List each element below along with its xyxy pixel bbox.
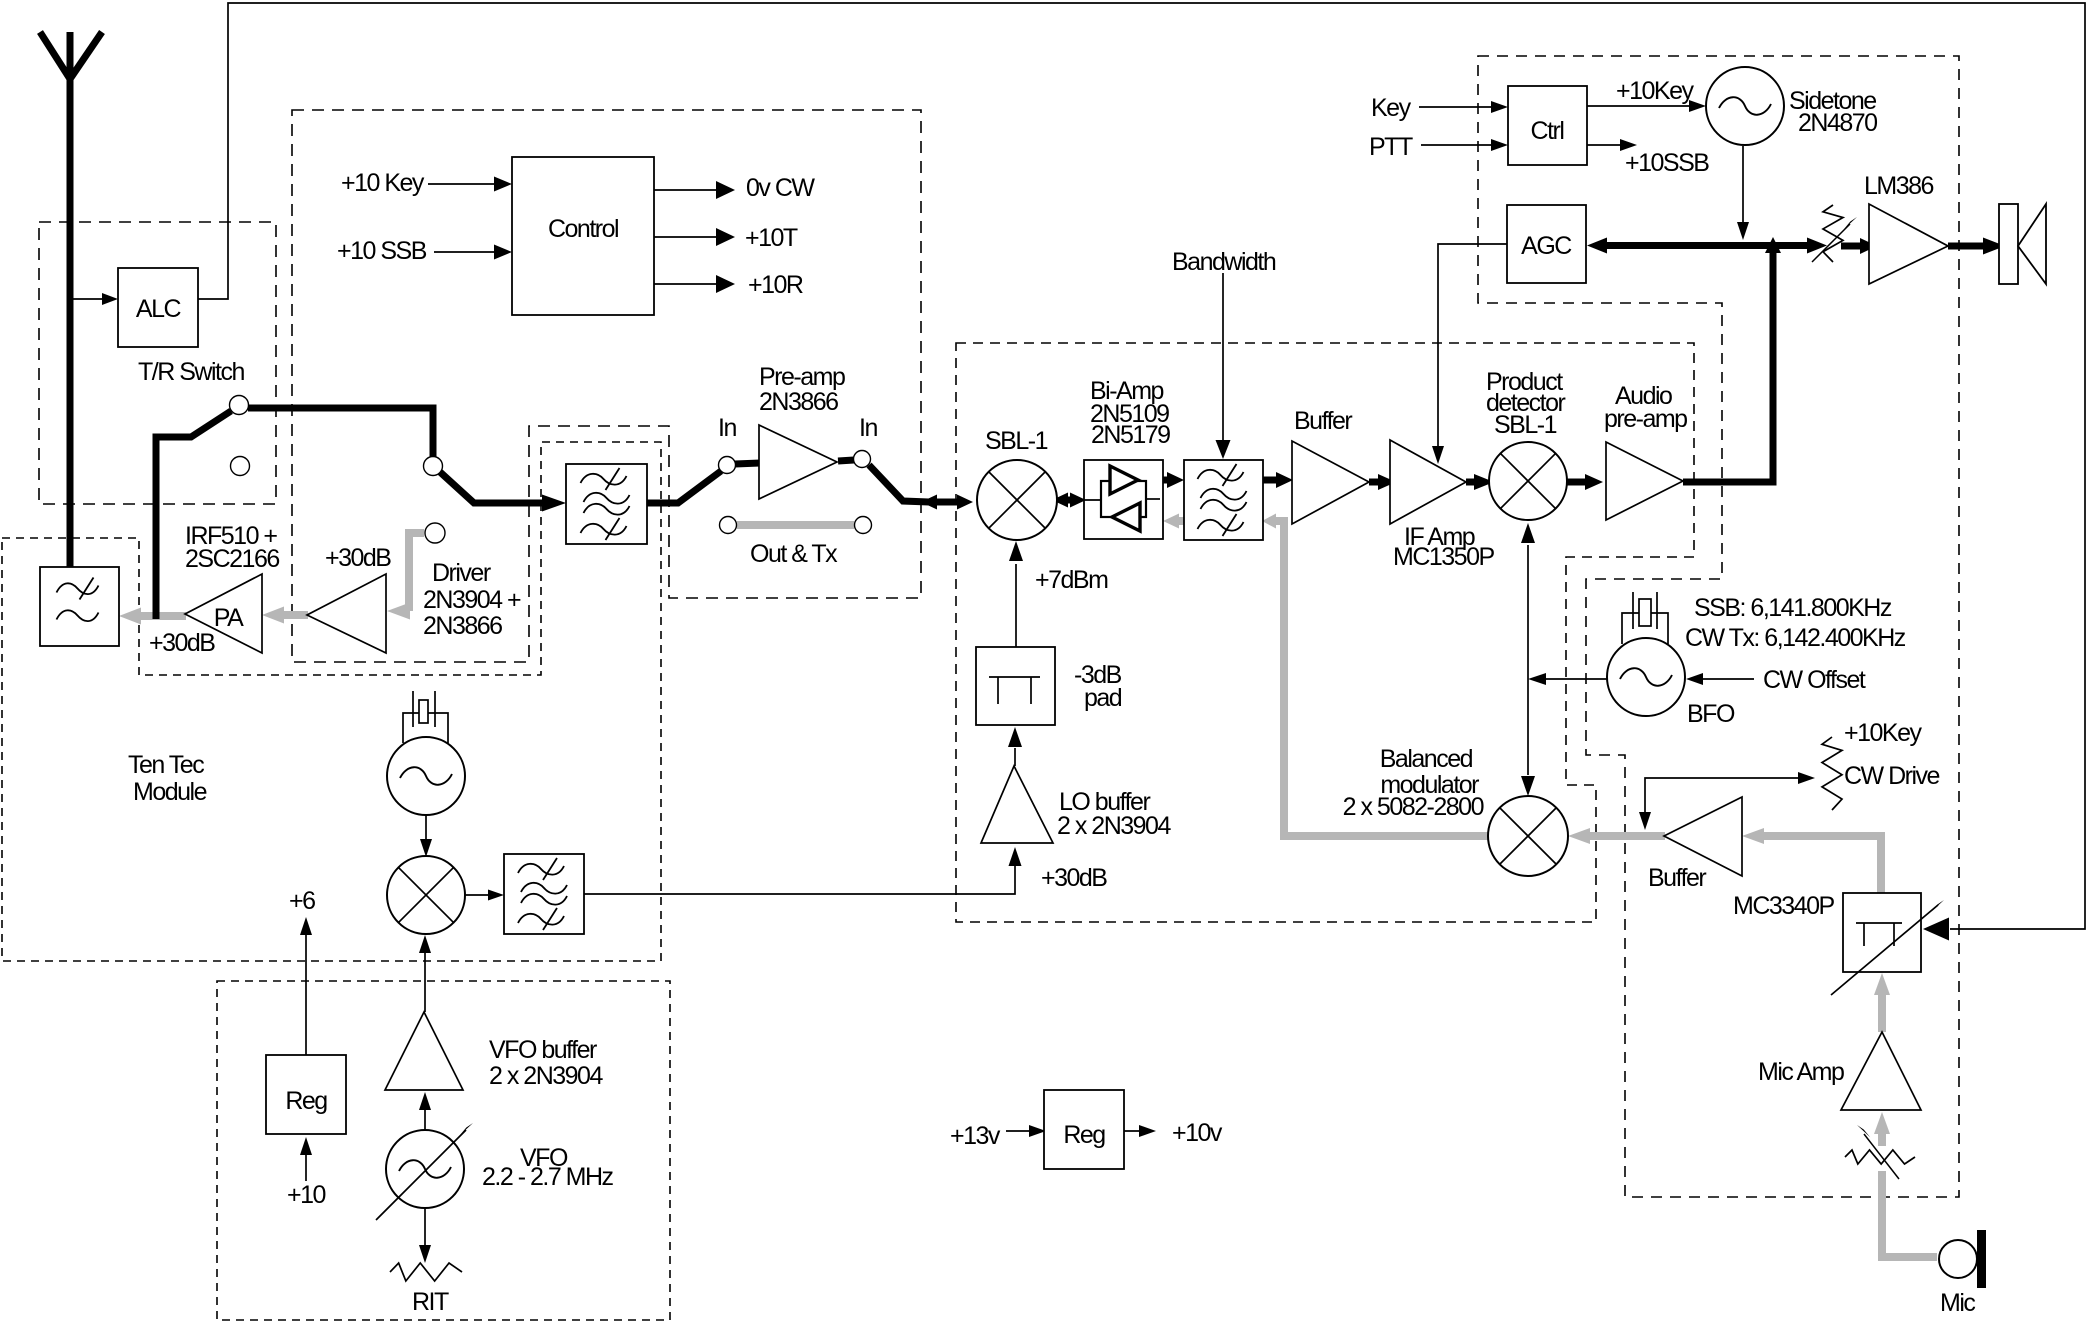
wire: regulator +6 output <box>305 935 307 1055</box>
wire: +10 SSB into Control <box>434 251 495 253</box>
wire: VFO RIT line <box>424 1209 426 1246</box>
wire: crystal oscillator to Ten-Tec mixer <box>425 815 427 839</box>
svg-text:pre-amp: pre-amp <box>1604 405 1687 433</box>
gray wire: driver input from T/R relay contact <box>409 533 424 611</box>
amplifier PA (IRF510 + 2SC2166) <box>185 574 262 653</box>
svg-text:+10Key: +10Key <box>1616 77 1694 105</box>
wire: RX contact to receive band-pass filter (thick) <box>440 472 543 503</box>
pre-amp In contact (right) <box>854 451 871 468</box>
svg-text:2N5179: 2N5179 <box>1091 421 1170 449</box>
pre-amp In contact (left) <box>719 457 736 474</box>
Bi-Amp 2N5109/2N5179 block <box>1084 460 1163 539</box>
regulator (VFO module) <box>266 1055 346 1134</box>
regulator +13v to +10v <box>1044 1090 1124 1169</box>
svg-text:+10SSB: +10SSB <box>1625 149 1709 177</box>
wire: Ten-Tec BPF to LO buffer (+30dB) <box>584 866 1015 894</box>
CW Drive potentiometer <box>1822 737 1842 810</box>
dashed box: control board (rectilinear outline) <box>292 110 921 662</box>
wire: In contact to pre-amp input (thick stub) <box>735 463 760 464</box>
audio pre-amp <box>1606 442 1683 520</box>
svg-text:2N3904 +: 2N3904 + <box>423 586 521 614</box>
gray wire: PA output into low-pass filter <box>138 612 186 620</box>
svg-text:+30dB: +30dB <box>149 629 215 657</box>
svg-text:Reg: Reg <box>1063 1121 1105 1149</box>
wire: control output +10T <box>654 236 716 238</box>
Ctrl block <box>1508 86 1587 165</box>
wire: LM386 to speaker <box>1948 243 1990 250</box>
VFO 2.2-2.7 MHz <box>386 1130 464 1208</box>
BFO crystal oscillator <box>1607 638 1685 716</box>
SBL-1 receive mixer <box>977 460 1057 540</box>
TX buffer amplifier <box>1664 797 1742 876</box>
wire: control output +10R <box>654 283 716 285</box>
svg-text:PTT: PTT <box>1369 133 1413 161</box>
wire: Bi-Amp output to bandwidth filter <box>1163 477 1170 484</box>
wire: Bandwidth control into bandwidth filter <box>1222 273 1224 441</box>
wire: pre-amp output to In contact (thick stub) <box>838 460 854 461</box>
Out & Tx contact (right) <box>855 517 872 534</box>
svg-text:+13v: +13v <box>950 1122 1001 1150</box>
wire: Ten-Tec mixer to BPF <box>465 894 490 896</box>
svg-text:2 x 5082-2800: 2 x 5082-2800 <box>1343 793 1484 821</box>
wire: product detector to audio pre-amp <box>1567 479 1587 486</box>
gray wire: mic gain pot into mic amp <box>1878 1133 1886 1146</box>
svg-text:Out & Tx: Out & Tx <box>750 540 838 568</box>
VFO buffer 2 x 2N3904 <box>385 1012 463 1090</box>
dashed box: IF / product detector module <box>956 343 1694 922</box>
sidetone oscillator 2N4870 <box>1706 67 1784 145</box>
gray wire: TX buffer output into balanced modulator <box>1589 832 1665 840</box>
svg-text:PA: PA <box>214 604 244 632</box>
amplifier driver (2N3904 + 2N3866) <box>307 574 386 653</box>
svg-text:Mic: Mic <box>1940 1289 1975 1317</box>
wire: sidetone oscillator to audio bus <box>1742 146 1744 223</box>
svg-text:2 x 2N3904: 2 x 2N3904 <box>1057 812 1171 840</box>
wire: IF amp to product detector <box>1466 479 1474 486</box>
wire: CW Drive tap from TX buffer input <box>1645 778 1800 812</box>
wire: control output 0v CW <box>654 189 716 191</box>
wire: audio pre-amp to volume/AGC bus (thick) <box>1683 250 1773 482</box>
wire: +10 into regulator <box>305 1154 307 1181</box>
svg-text:+10v: +10v <box>1172 1119 1223 1147</box>
svg-text:Balanced: Balanced <box>1380 745 1473 773</box>
wire: IF buffer to IF amp <box>1369 479 1380 486</box>
T/R switch open contact <box>231 457 250 476</box>
svg-text:+10R: +10R <box>748 271 803 299</box>
svg-text:CW Offset: CW Offset <box>1763 666 1866 694</box>
gray wire: microphone to mic gain pot <box>1882 1171 1937 1257</box>
svg-text:SBL-1: SBL-1 <box>985 427 1048 455</box>
wire: LO drive -3dB pad to SBL-1 mixer <box>1015 564 1017 647</box>
svg-text:Module: Module <box>133 778 207 806</box>
Ten-Tec mixer <box>387 856 465 934</box>
wire: volume pot to LM386 <box>1841 243 1862 250</box>
wire: band-pass filter to pre-amp In switch (thick) <box>647 471 721 503</box>
T/R relay TX contact (to driver) <box>425 523 445 543</box>
svg-text:In: In <box>718 414 736 442</box>
svg-text:SBL-1: SBL-1 <box>1494 411 1557 439</box>
svg-text:VFO buffer: VFO buffer <box>489 1036 597 1064</box>
bandwidth crystal filter <box>1184 460 1263 540</box>
-3dB pad <box>976 647 1055 725</box>
MC3340P attenuator block <box>1843 893 1921 972</box>
dashed box: VFO module <box>217 981 670 1320</box>
svg-text:MC1350P: MC1350P <box>1393 543 1494 571</box>
dashed box: Ten Tec Module (rectilinear outline) <box>2 442 661 961</box>
pre-amp 2N3866 <box>759 425 837 499</box>
svg-text:CW Tx: 6,142.400KHz: CW Tx: 6,142.400KHz <box>1685 624 1906 652</box>
T/R switch common contact <box>230 396 249 415</box>
BFO crystal <box>1632 592 1634 629</box>
svg-text:MC3340P: MC3340P <box>1733 892 1834 920</box>
Ten-Tec band-pass filter <box>504 854 584 934</box>
wire: carrier node up into product detector <box>1527 545 1529 679</box>
svg-text:2N3866: 2N3866 <box>759 388 838 416</box>
svg-text:Control: Control <box>548 215 618 243</box>
wire: pre-amp output to SBL-1 mixer (thick, double arrow) <box>869 465 929 502</box>
wire: bandwidth filter to IF buffer <box>1263 477 1278 484</box>
svg-text:Bandwidth: Bandwidth <box>1172 248 1276 276</box>
svg-text:+6: +6 <box>289 887 315 915</box>
T/R switch RX contact <box>424 457 443 476</box>
svg-text:2 x 2N3904: 2 x 2N3904 <box>489 1062 603 1090</box>
IF amp MC1350P <box>1390 440 1466 524</box>
svg-text:Ctrl: Ctrl <box>1531 117 1564 145</box>
volume potentiometer <box>1823 205 1843 262</box>
low-pass filter (antenna) <box>40 567 119 646</box>
AGC block <box>1507 205 1586 283</box>
wire: Ctrl +10Key to sidetone oscillator <box>1587 105 1691 107</box>
microphone <box>1939 1240 1977 1278</box>
speaker <box>1999 204 2018 284</box>
balanced modulator 2 x 5082-2800 <box>1488 796 1568 876</box>
mic amp <box>1841 1032 1921 1110</box>
svg-text:LM386: LM386 <box>1864 172 1934 200</box>
svg-text:BFO: BFO <box>1687 700 1735 728</box>
antenna <box>67 32 74 568</box>
receive band-pass filter <box>566 464 647 544</box>
wire: audio bus between AGC and volume pot (double arrow) <box>1604 242 1813 249</box>
Out & Tx contact (left) <box>720 517 737 534</box>
ALC block <box>118 268 198 347</box>
gray wire: driver output into PA <box>281 611 308 619</box>
wire: BFO output to carrier injection node <box>1546 678 1607 680</box>
svg-text:ALC: ALC <box>136 295 182 323</box>
wire: +10 Key into Control <box>428 183 495 185</box>
wire: VFO to VFO buffer <box>424 1109 426 1130</box>
svg-text:T/R Switch: T/R Switch <box>138 358 244 386</box>
Ten-Tec crystal <box>412 691 414 727</box>
svg-text:+30dB: +30dB <box>325 544 391 572</box>
svg-text:+10Key: +10Key <box>1844 719 1922 747</box>
svg-text:+30dB: +30dB <box>1041 864 1107 892</box>
svg-text:2N4870: 2N4870 <box>1798 109 1877 137</box>
wire: Ctrl +10SSB output <box>1587 144 1622 146</box>
mic gain potentiometer <box>1845 1150 1915 1164</box>
svg-text:AGC: AGC <box>1521 232 1572 260</box>
LO buffer 2 x 2N3904 <box>981 766 1053 843</box>
wire: carrier node down into balanced modulator <box>1527 679 1529 775</box>
wire: ALC sample line to top rail, down right side into MC3340P <box>198 3 2085 929</box>
wire: regulator +10v output <box>1124 1130 1141 1132</box>
gray arrow: bandwidth filter into Bi-Amp (TX path) <box>1178 517 1184 525</box>
svg-text:pad: pad <box>1084 684 1122 712</box>
dashed box: T/R switch module <box>39 222 276 504</box>
svg-text:Key: Key <box>1371 94 1412 122</box>
svg-text:+10T: +10T <box>745 224 798 252</box>
svg-text:SSB: 6,141.800KHz: SSB: 6,141.800KHz <box>1694 594 1892 622</box>
wire: CW Offset into BFO <box>1703 678 1754 680</box>
svg-text:+7dBm: +7dBm <box>1035 566 1108 594</box>
svg-text:Pre-amp: Pre-amp <box>759 363 845 391</box>
svg-text:Reg: Reg <box>285 1087 327 1115</box>
svg-text:CW Drive: CW Drive <box>1844 762 1940 790</box>
svg-text:+10: +10 <box>287 1181 326 1209</box>
svg-text:+10 Key: +10 Key <box>341 169 425 197</box>
svg-text:Buffer: Buffer <box>1294 407 1352 435</box>
product detector SBL-1 <box>1489 442 1567 520</box>
gray wire: mic amp output into MC3340P <box>1878 994 1886 1032</box>
wire: PTT input to Ctrl <box>1421 144 1493 146</box>
gray wire: Out & Tx link <box>737 521 854 529</box>
wire: antenna feed into ALC <box>70 298 103 300</box>
dashed box: audio + SSB generator + mic module <box>1478 56 1959 1197</box>
svg-text:+10 SSB: +10 SSB <box>337 237 427 265</box>
wire: AGC control to IF amp <box>1438 244 1507 447</box>
wire: T/R switch common to RX contact (thick) <box>248 408 433 458</box>
wire: SBL-1 to Bi-Amp (double arrow) <box>1066 497 1072 504</box>
svg-text:0v CW: 0v CW <box>746 174 815 202</box>
svg-text:Buffer: Buffer <box>1648 864 1706 892</box>
svg-text:Ten Tec: Ten Tec <box>128 751 204 779</box>
RIT resistor <box>390 1263 462 1281</box>
svg-text:2N3866: 2N3866 <box>423 612 502 640</box>
svg-text:2SC2166: 2SC2166 <box>185 545 279 573</box>
wire: VFO buffer to Ten-Tec mixer <box>424 953 426 1012</box>
wire: +13v into regulator <box>1006 1130 1031 1132</box>
audio amp LM386 <box>1869 204 1948 284</box>
gray wire: MC3340P output into TX buffer <box>1763 836 1881 893</box>
wire: LO buffer to -3dB pad <box>1014 748 1016 766</box>
Control block <box>512 157 654 315</box>
wire: Key input to Ctrl <box>1419 106 1493 108</box>
svg-text:In: In <box>859 414 877 442</box>
Ten-Tec crystal oscillator <box>387 737 465 815</box>
svg-text:Mic Amp: Mic Amp <box>1758 1058 1844 1086</box>
wire: T/R switch blade to PA/LPF junction (thick) <box>156 411 231 619</box>
svg-text:RIT: RIT <box>412 1288 449 1316</box>
IF buffer amplifier <box>1292 441 1369 524</box>
svg-text:2.2 - 2.7 MHz: 2.2 - 2.7 MHz <box>482 1163 614 1191</box>
svg-text:Driver: Driver <box>432 559 491 587</box>
gray wire: balanced modulator output to bandwidth filter (TX path) <box>1273 521 1489 836</box>
